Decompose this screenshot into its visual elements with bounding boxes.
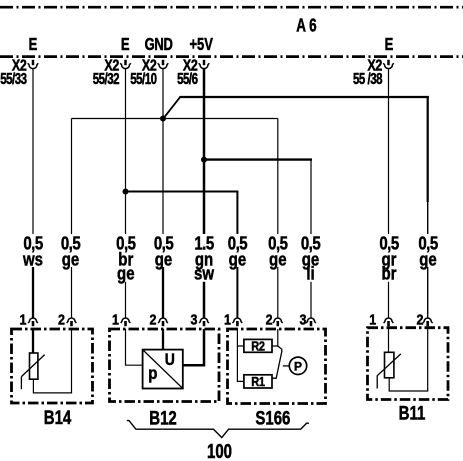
net label GND at pin X2 55/10 (145, 35, 173, 54)
thermistor element of B11 (377, 352, 401, 388)
p/U transducer element of B12 (143, 350, 183, 389)
svg-text:2: 2 (58, 311, 65, 327)
wire label 0,5 ge li (299, 233, 323, 284)
svg-text:A 6: A 6 (296, 15, 316, 36)
junction node on E wire (123, 189, 129, 195)
connector pin X2 55/38 (353, 57, 394, 87)
svg-text:2: 2 (266, 311, 273, 327)
svg-text:ge: ge (62, 249, 79, 270)
wire gn-sw 1.5mm X2 55/6 +5V to B12 pin3 (203, 69, 206, 318)
sensor B11 boundary box (368, 328, 449, 400)
svg-text:+5V: +5V (189, 35, 213, 54)
wire label 0,5 gr br (377, 233, 401, 284)
B14 internal wire pin1 to thermistor (32, 329, 34, 353)
wire label 1.5 gn sw (192, 233, 216, 284)
GND bus upper horizontal wire to B11 pin2 (180, 96, 429, 98)
wire label 0,5 ws (21, 233, 45, 270)
junction node on GND wire (160, 116, 166, 122)
svg-text:sw: sw (194, 263, 215, 284)
resistor R2 (244, 339, 272, 354)
svg-text:ge: ge (419, 249, 436, 270)
svg-text:B11: B11 (399, 401, 426, 423)
wire br-ge X2 55/32 to B12 pin1 (125, 69, 127, 318)
S166 internal wire pin2 to R2 (272, 329, 278, 346)
B11 internal wire pin1 to thermistor (388, 328, 390, 353)
svg-text:2: 2 (417, 311, 424, 327)
wire label 0,5 ge at S166 pin2 (266, 233, 290, 270)
svg-text:3: 3 (300, 311, 307, 327)
wire label 0,5 br ge (114, 233, 138, 284)
svg-text:1: 1 (224, 311, 231, 327)
component label B11 (399, 401, 426, 423)
S166 internal wire pin1 to R2 and R1 (237, 329, 244, 381)
svg-text:E: E (29, 35, 38, 54)
pressure switch S166 boundary box (228, 329, 326, 404)
svg-text:U: U (165, 351, 175, 369)
svg-text:ge: ge (229, 249, 246, 270)
svg-text:S166: S166 (255, 406, 290, 428)
svg-text:E: E (121, 35, 130, 54)
svg-text:3: 3 (191, 311, 198, 327)
net label +5V at pin X2 55/6 (189, 35, 213, 54)
connector pin X2 55/32 (93, 57, 131, 87)
wire gr-br X2 55/38 to B11 pin1 (388, 69, 390, 318)
wire ge GND bus to B11 pin2 lower thin segment (427, 202, 429, 318)
B12 internal wire pin1 (126, 329, 143, 365)
wire ws X2 55/33 to B14 pin1 lower thick segment (32, 267, 34, 318)
svg-text:B12: B12 (149, 406, 176, 428)
svg-text:55/33: 55/33 (0, 70, 27, 87)
svg-text:br: br (382, 263, 397, 284)
B14 pin 2 connector (58, 311, 76, 327)
svg-text:E: E (385, 35, 394, 54)
switch contact arm of S166 (272, 346, 282, 378)
thermistor element of B14 (21, 353, 44, 389)
wire label 0,5 ge at S166 pin1 (225, 233, 249, 270)
node label 100 (207, 440, 232, 461)
control unit A6 bottom boundary dash-dot line (0, 55, 463, 58)
B11 pin 1 connector (369, 311, 393, 327)
wire ge E bus to S166 pin1 (236, 192, 238, 318)
svg-text:ge: ge (155, 249, 172, 270)
B11 pin 2 connector (417, 311, 433, 327)
svg-text:ge: ge (117, 263, 134, 284)
B12 pin 2 connector (150, 311, 168, 327)
control unit A6 top boundary dash-dot line (0, 6, 463, 9)
resistor R1 (244, 374, 272, 389)
wire label 0,5 ge at B11 pin2 (416, 233, 440, 270)
B12 pin 1 connector (112, 311, 130, 327)
connector pin X2 55/33 (0, 57, 38, 87)
GND distribution bus wire horizontal (72, 118, 278, 120)
wire ge GND bus to B11 pin2 upper thick segment (427, 96, 429, 202)
wire label 0,5 ge at B14 pin2 (59, 233, 83, 270)
svg-text:P: P (294, 360, 302, 374)
wire ge X2 55/10 GND to B12 pin2 lower thick segment (162, 267, 164, 318)
svg-text:55/10: 55/10 (130, 70, 157, 87)
svg-text:ws: ws (22, 249, 43, 270)
svg-text:1: 1 (20, 311, 27, 327)
svg-text:55 /38: 55 /38 (353, 70, 383, 87)
wire ge-li +5V bus to S166 pin3 (310, 160, 312, 318)
B11 internal wire thermistor to pin2 (389, 328, 428, 391)
svg-text:R1: R1 (251, 374, 265, 389)
svg-text:p: p (148, 364, 157, 383)
svg-text:B14: B14 (44, 406, 72, 428)
wire ge X2 55/10 GND to B12 pin2 upper thin segment (162, 69, 164, 267)
B14 pin 1 connector (20, 311, 38, 327)
wire ge GND bus to B14 pin2 (71, 119, 73, 318)
svg-text:1: 1 (369, 311, 376, 327)
connector pin X2 55/10 (130, 57, 168, 87)
net label E at pin X2 55/32 (121, 35, 130, 54)
B14 internal wire thermistor to pin2 (33, 329, 71, 393)
sensor B14 boundary box (12, 329, 93, 403)
svg-text:55/6: 55/6 (177, 70, 198, 87)
svg-text:ge: ge (269, 249, 286, 270)
component label B14 (44, 406, 72, 428)
pressure actuator P of S166 (283, 357, 307, 374)
grouping bracket for node 100 (127, 421, 309, 438)
B12 internal wire pin3 (183, 329, 204, 365)
wire label 0,5 ge at B12 pin2 (152, 233, 176, 270)
svg-text:100: 100 (207, 440, 232, 461)
B12 internal wire pin2 (162, 329, 164, 350)
connector pin X2 55/6 (177, 57, 209, 87)
S166 pin 1 connector (224, 311, 242, 327)
svg-text:R2: R2 (251, 339, 265, 354)
S166 pin 3 connector (300, 311, 316, 327)
net label E at pin X2 55/33 (29, 35, 38, 54)
svg-text:2: 2 (150, 311, 157, 327)
svg-text:li: li (306, 263, 314, 284)
label A6 (296, 15, 316, 36)
svg-text:GND: GND (145, 35, 173, 54)
wire ge GND bus to S166 pin2 (277, 119, 279, 318)
S166 pin 2 connector (266, 311, 283, 327)
component label B12 (149, 406, 176, 428)
net label E at pin X2 55/38 (385, 35, 394, 54)
junction node on +5V wire (201, 157, 207, 163)
E distribution bus wire horizontal (126, 191, 239, 193)
svg-text:55/32: 55/32 (93, 70, 120, 87)
svg-text:1: 1 (112, 311, 119, 327)
GND bus diagonal riser wire (163, 97, 181, 119)
pressure sensor B12 boundary box (110, 329, 220, 402)
+5V distribution bus wire horizontal (204, 158, 312, 160)
wire ws X2 55/33 to B14 pin1 upper thin segment (32, 69, 34, 267)
B12 pin 3 connector (191, 311, 209, 327)
component label S166 (255, 406, 290, 428)
